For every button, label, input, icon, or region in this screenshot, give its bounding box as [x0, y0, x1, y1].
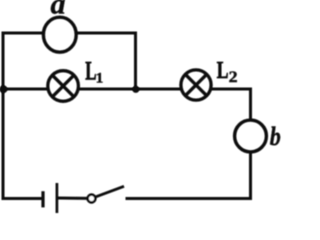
wire: bottom right segment (corner to switch gap): [126, 197, 253, 200]
battery: long plate (+): [56, 183, 59, 213]
lamp L1: [48, 71, 79, 102]
switch S blade: [96, 186, 124, 197]
wire: top from left corner to ammeter: [2, 32, 44, 35]
junction dot: middle: [132, 86, 139, 93]
lamp L2: [181, 70, 211, 100]
wire: battery to switch: [57, 197, 88, 200]
wire: right vertical lower (meter b to bottom corner): [249, 152, 252, 199]
wire: L2 to top-right corner of right branch: [212, 88, 251, 91]
wire: ammeter to top-right corner: [77, 32, 136, 35]
svg-text:a: a: [51, 0, 66, 21]
junction dot: left: [0, 85, 7, 93]
wire: bottom left segment: [2, 197, 42, 200]
voltmeter b: [235, 120, 267, 152]
wire: left vertical: [2, 33, 5, 199]
label L2: [217, 56, 229, 83]
ammeter a: [43, 17, 76, 52]
switch S pivot: [88, 195, 96, 203]
wire: right branch vertical down to junction: [134, 32, 137, 90]
label L2 subscript 2: [229, 68, 238, 86]
svg-text:2: 2: [229, 68, 238, 86]
label b (meter b): [270, 123, 281, 151]
wire: middle left segment: [3, 88, 48, 91]
svg-text:1: 1: [96, 71, 104, 87]
wire: middle segment L1 to junction to L2: [79, 88, 182, 91]
svg-text:b: b: [270, 123, 281, 151]
battery: short plate (-): [41, 191, 44, 207]
label L1: [85, 56, 96, 86]
wire: right vertical upper (corner down to meter b): [249, 88, 252, 121]
svg-text:L: L: [217, 56, 229, 83]
